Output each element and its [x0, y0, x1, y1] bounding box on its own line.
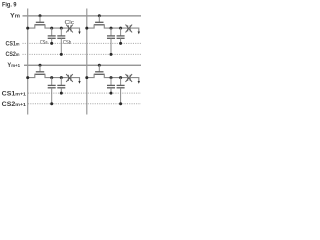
TFT R2C1: channel electrode	[35, 73, 46, 75]
wire: TFT R2C1 drain to pixel node	[45, 74, 68, 77]
junction dot: node / CSa branch R1C1	[50, 27, 53, 30]
capacitor CSa R2C1: top plate	[48, 84, 56, 86]
junction dot: source / data line R1C2	[85, 27, 88, 30]
junction dot: node / CSb branch R2C2	[119, 76, 122, 79]
capacitor CSa R1C2: top lead	[110, 28, 112, 36]
capacitor CSa R2C1: bottom lead to CS2m+1	[51, 88, 53, 104]
junction dot: CSa / CS1m line R1C1	[50, 42, 53, 45]
svg-text:CS1m+1: CS1m+1	[2, 90, 27, 97]
TFT R1C1: gate electrode	[36, 21, 44, 23]
TFT R2C2: gate junction dot on Ym+1	[98, 64, 101, 67]
LC capacitor Clc R1C2: cross stroke 2	[126, 25, 133, 33]
LC capacitor Clc R2C1: left plate	[67, 75, 69, 81]
capacitor CSb R1C1: bottom lead to CS2m	[60, 38, 62, 54]
junction dot: source / data line R2C2	[85, 76, 88, 79]
LC capacitor Clc R2C2: left plate	[127, 75, 129, 81]
svg-text:CS2m: CS2m	[6, 51, 20, 58]
junction dot: node / CSa branch R2C2	[110, 76, 113, 79]
capacitor CSb R2C1: top lead	[60, 78, 62, 86]
TFT R2C1: gate junction dot on Ym+1	[39, 64, 42, 67]
wire: Clc R1C1 to common electrode	[71, 28, 79, 31]
capacitor CSb R1C2: bottom plate	[117, 37, 125, 39]
LC capacitor Clc R2C1: cross stroke 1	[66, 74, 73, 82]
common electrode arrow R2C1	[78, 81, 80, 84]
svg-text:Ym+1: Ym+1	[7, 62, 20, 69]
capacitor CSa R2C1: top lead	[51, 78, 53, 86]
common electrode arrow R1C2	[138, 32, 140, 35]
TFT R2C1: gate electrode	[36, 71, 44, 73]
TFT R2C2: gate electrode	[95, 71, 103, 73]
junction dot: source / data line R2C1	[26, 76, 29, 79]
TFT R1C2: gate lead wire	[98, 16, 100, 22]
junction dot: node / CSb branch R2C1	[60, 76, 63, 79]
TFT R1C2: gate electrode	[95, 21, 103, 23]
value label CSa backing	[40, 39, 49, 45]
storage capacitor line CS1m	[23, 42, 142, 44]
capacitor CSb R2C2: bottom lead to CS2m+1	[120, 88, 122, 104]
junction dot: node / CSa branch R1C2	[110, 27, 113, 30]
junction dot: node / CSb branch R1C2	[119, 27, 122, 30]
junction dot: source / data line R1C1	[26, 27, 29, 30]
capacitor CSa R1C2: bottom plate	[107, 37, 115, 39]
capacitor CSb R2C1: bottom lead to CS1m+1	[60, 88, 62, 93]
capacitor CSa R1C2: top plate	[107, 35, 115, 37]
capacitor CSa R2C2: top lead	[110, 78, 112, 86]
LC capacitor Clc R1C1: cross stroke 2	[66, 25, 73, 33]
capacitor CSb R2C2: top lead	[120, 78, 122, 86]
capacitor CSa R2C2: bottom plate	[107, 87, 115, 89]
capacitor CSb R1C1: top plate	[57, 35, 65, 37]
storage capacitor line CS2m+1	[28, 103, 141, 105]
svg-text:CS1m: CS1m	[6, 41, 20, 48]
capacitor CSa R1C1: bottom lead to CS1m	[51, 38, 53, 43]
storage capacitor line CS2m	[23, 53, 142, 55]
capacitor CSa R2C1: bottom plate	[48, 87, 56, 89]
TFT R2C2: channel electrode	[94, 73, 105, 75]
svg-text:Ym: Ym	[10, 13, 20, 20]
TFT R1C1: gate junction dot on Ym	[39, 14, 42, 17]
junction dot: CSb / CS1m+1 line R2C1	[60, 92, 63, 95]
capacitor CSb R2C1: top plate	[57, 84, 65, 86]
junction dot: CSb / CS2m line R1C1	[60, 53, 63, 56]
storage capacitor line CS1m+1	[28, 92, 141, 94]
common electrode arrow R2C2	[138, 81, 140, 84]
common electrode arrow R1C1	[78, 32, 80, 35]
source (data) line column 2	[86, 9, 88, 115]
junction dot: CSa / CS1m+1 line R2C2	[110, 92, 113, 95]
capacitor CSb R1C2: bottom lead to CS1m	[120, 38, 122, 43]
scan line Ym+1	[24, 64, 141, 66]
wire: TFT R2C2 source to data line	[87, 74, 94, 77]
TFT R2C1: gate lead wire	[39, 65, 41, 72]
wire: TFT R1C1 drain to pixel node	[45, 25, 68, 28]
TFT R2C2: gate lead wire	[98, 65, 100, 72]
capacitor CSa R1C1: top plate	[48, 35, 56, 37]
svg-text:CSa: CSa	[40, 40, 48, 46]
junction dot: CSa / CS2m line R1C2	[110, 53, 113, 56]
capacitor CSb R1C2: top lead	[120, 28, 122, 36]
TFT R1C2: gate junction dot on Ym	[98, 14, 101, 17]
LC capacitor Clc R2C2: cross stroke 1	[126, 74, 133, 82]
LC capacitor Clc R1C2: cross stroke 1	[126, 25, 133, 33]
wire: TFT R2C2 drain to pixel node	[104, 74, 127, 77]
LC capacitor Clc R1C1: cross stroke 1	[66, 25, 73, 33]
svg-text:CS2m+1: CS2m+1	[2, 101, 27, 108]
TFT R1C1: channel electrode	[35, 24, 46, 26]
LC capacitor Clc R2C1: right plate	[70, 75, 72, 81]
capacitor CSa R1C2: bottom lead to CS2m	[110, 38, 112, 54]
junction dot: node / CSb branch R1C1	[60, 27, 63, 30]
TFT R1C2: channel electrode	[94, 24, 105, 26]
wire: TFT R2C1 source to data line	[28, 74, 35, 77]
wire: Clc R1C2 to common electrode	[131, 28, 139, 31]
capacitor CSa R2C2: top plate	[107, 84, 115, 86]
junction dot: CSb / CS2m+1 line R2C2	[119, 102, 122, 105]
svg-text:Clc: Clc	[65, 20, 75, 26]
capacitor CSb R1C2: top plate	[117, 35, 125, 37]
value label CSb backing	[63, 39, 72, 45]
svg-text:Fig. 9: Fig. 9	[2, 2, 17, 9]
capacitor CSa R1C1: bottom plate	[48, 37, 56, 39]
LC capacitor Clc R2C2: right plate	[129, 75, 131, 81]
junction dot: CSa / CS2m+1 line R2C1	[50, 102, 53, 105]
junction dot: node / CSa branch R2C1	[50, 76, 53, 79]
scan line Ym	[23, 15, 142, 17]
capacitor CSb R1C1: bottom plate	[57, 37, 65, 39]
capacitor CSa R2C2: bottom lead to CS1m+1	[110, 88, 112, 93]
wire: Clc R2C2 to common electrode	[131, 78, 139, 81]
capacitor CSb R1C1: top lead	[60, 28, 62, 36]
capacitor CSa R1C1: top lead	[51, 28, 53, 36]
LC capacitor Clc R1C2: left plate	[127, 25, 129, 31]
LC capacitor Clc R1C2: right plate	[129, 25, 131, 31]
capacitor CSb R2C1: bottom plate	[57, 87, 65, 89]
LC capacitor Clc R1C1: left plate	[67, 25, 69, 31]
wire: TFT R1C2 drain to pixel node	[104, 25, 127, 28]
junction dot: CSb / CS1m line R1C2	[119, 42, 122, 45]
wire: TFT R1C2 source to data line	[87, 25, 94, 28]
svg-text:CSb: CSb	[63, 40, 71, 46]
wire: TFT R1C1 source to data line	[28, 25, 35, 28]
LC capacitor Clc R2C2: cross stroke 2	[126, 74, 133, 82]
capacitor CSb R2C2: bottom plate	[117, 87, 125, 89]
source (data) line column 1	[27, 9, 29, 115]
LC capacitor Clc R1C1: right plate	[70, 25, 72, 31]
wire: Clc R2C1 to common electrode	[71, 78, 79, 81]
TFT R1C1: gate lead wire	[39, 16, 41, 22]
capacitor CSb R2C2: top plate	[117, 84, 125, 86]
LC capacitor Clc R2C1: cross stroke 2	[66, 74, 73, 82]
